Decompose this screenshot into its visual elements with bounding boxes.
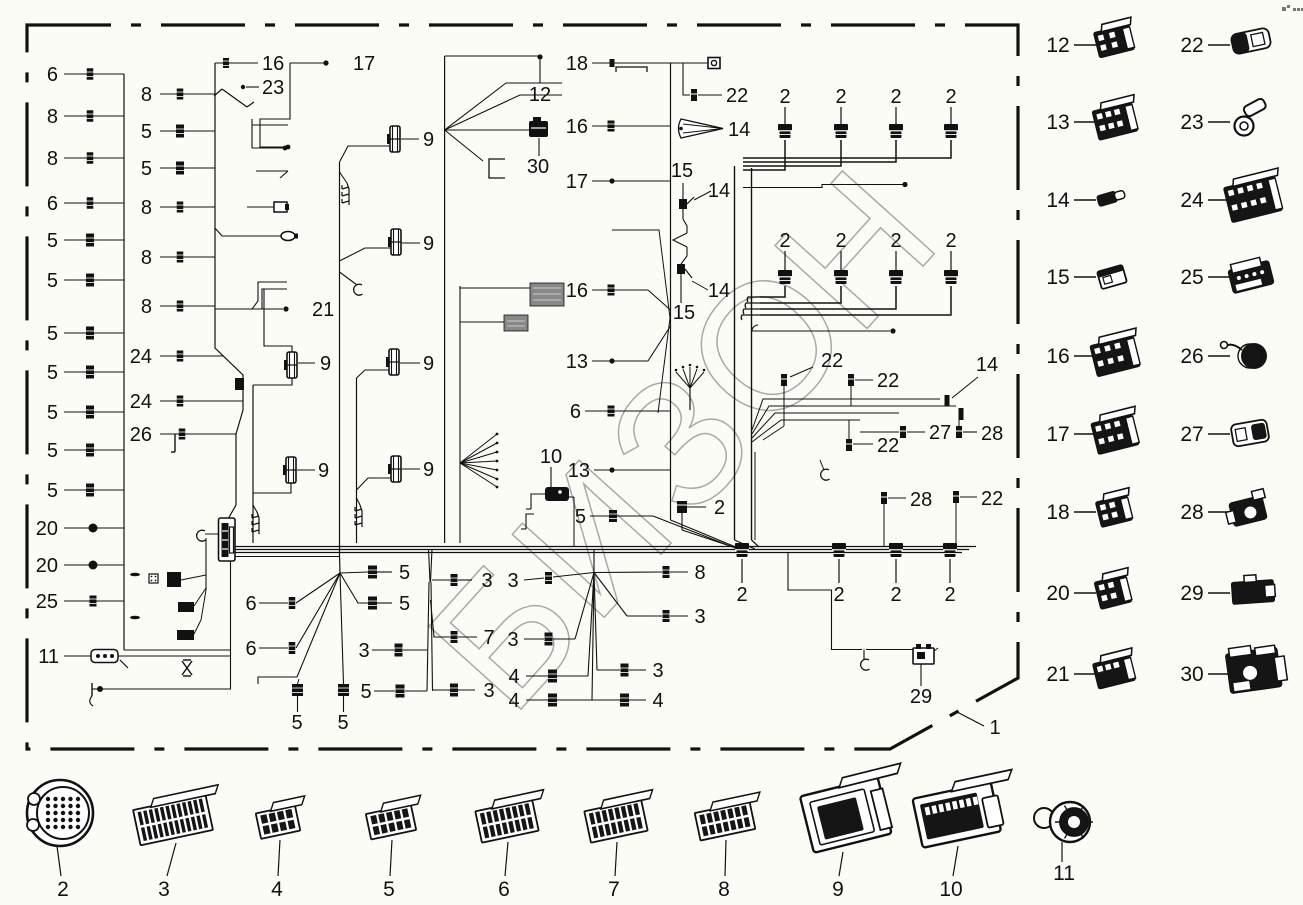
apex 1 fan [339, 556, 342, 573]
node 23 [241, 85, 245, 89]
bottom gallery item 8 [693, 792, 767, 840]
wire riser x460 [459, 286, 461, 543]
svg-text:2: 2 [890, 584, 901, 606]
plug 9 r2 [391, 229, 401, 255]
svg-text:27: 27 [929, 422, 951, 444]
plug 9 r4 [391, 456, 401, 482]
svg-text:14: 14 [728, 119, 750, 141]
svg-text:2: 2 [945, 86, 956, 108]
svg-text:15: 15 [671, 160, 693, 182]
node 15 lower group [677, 264, 685, 274]
svg-text:22: 22 [726, 85, 748, 107]
svg-text:2: 2 [779, 86, 790, 108]
gallery item 24 icon [1222, 168, 1288, 223]
braid line [612, 230, 670, 413]
svg-text:14: 14 [708, 280, 730, 302]
svg-text:29: 29 [1180, 582, 1203, 605]
svg-text:8: 8 [694, 562, 705, 584]
gallery item 25 icon [1227, 255, 1275, 293]
plug 9 left-b [286, 457, 296, 483]
gallery item 28 icon [1222, 489, 1270, 528]
svg-text:11: 11 [38, 646, 59, 668]
svg-text:5: 5 [47, 323, 58, 345]
svg-text:2: 2 [944, 584, 955, 606]
gallery item 13 icon [1091, 95, 1143, 141]
svg-text:16: 16 [1046, 345, 1069, 368]
svg-text:17: 17 [566, 171, 588, 193]
pin 22 d [953, 491, 959, 503]
svg-text:8: 8 [718, 878, 730, 901]
row 3-3 [432, 579, 450, 581]
svg-text:14: 14 [1046, 189, 1070, 212]
svg-text:3: 3 [507, 629, 518, 651]
svg-text:2: 2 [833, 584, 844, 606]
svg-text:13: 13 [566, 351, 588, 373]
svg-text:8: 8 [141, 296, 152, 318]
bottom gallery item 6 [474, 790, 552, 843]
svg-text:5: 5 [399, 562, 410, 584]
svg-text:5: 5 [47, 440, 58, 462]
svg-text:18: 18 [1046, 501, 1069, 524]
svg-text:1: 1 [989, 717, 1000, 739]
svg-text:16: 16 [566, 116, 588, 138]
svg-text:24: 24 [130, 391, 152, 413]
svg-text:29: 29 [910, 686, 932, 708]
svg-text:13: 13 [1046, 111, 1069, 134]
svg-text:21: 21 [1046, 663, 1069, 686]
svg-text:9: 9 [423, 353, 434, 375]
bottom gallery item 4 [254, 796, 311, 839]
svg-text:9: 9 [832, 878, 844, 901]
svg-text:26: 26 [130, 424, 152, 446]
gallery item 17 icon [1089, 406, 1144, 454]
gallery item 14 icon [1096, 188, 1126, 207]
svg-text:6: 6 [570, 401, 581, 423]
row 3 lower-right [594, 573, 597, 671]
svg-text:5: 5 [141, 158, 152, 180]
gallery item 21 icon [1091, 648, 1140, 689]
fan drop 5 d2 [340, 573, 344, 684]
svg-text:2: 2 [890, 230, 901, 252]
node 2 mid [677, 501, 687, 513]
gallery item 29 icon [1231, 574, 1276, 605]
trunk funnel [735, 540, 756, 549]
bottom gallery item 9 [798, 763, 917, 853]
svg-text:5: 5 [291, 712, 302, 734]
node 17 top-left [290, 62, 326, 64]
svg-text:4: 4 [271, 878, 283, 901]
row 3 mid-left [575, 573, 594, 640]
svg-text:10: 10 [939, 878, 962, 901]
page marks [1282, 7, 1286, 11]
wire spray tulip [689, 388, 691, 410]
svg-text:14: 14 [976, 354, 998, 376]
column 2 bus [215, 63, 243, 519]
hook r [340, 272, 358, 285]
svg-text:16: 16 [262, 53, 284, 75]
hook near connector [197, 530, 206, 541]
sub box left edge [230, 561, 232, 650]
row 3 right-mid [594, 573, 627, 617]
splice on bus [235, 378, 244, 390]
svg-text:21: 21 [312, 299, 334, 321]
pin 28 b [881, 492, 887, 504]
svg-text:25: 25 [1180, 266, 1203, 289]
row 7 [431, 600, 451, 637]
svg-text:3: 3 [694, 606, 705, 628]
svg-text:2: 2 [57, 878, 69, 901]
col2 branch e with bullet [215, 228, 222, 236]
pin 14 a [945, 395, 950, 406]
svg-text:28: 28 [981, 423, 1003, 445]
svg-text:4: 4 [508, 690, 519, 712]
wire fan right [460, 434, 497, 463]
hook cluster [821, 469, 830, 480]
svg-text:5: 5 [47, 362, 58, 384]
main trunk pair [734, 166, 736, 540]
horn 14 [679, 119, 724, 138]
svg-text:23: 23 [1180, 111, 1203, 134]
bottom gallery item 3 [132, 785, 227, 845]
svg-text:6: 6 [498, 878, 510, 901]
gallery item 26 icon [1221, 342, 1268, 370]
connector 29 [913, 648, 934, 664]
svg-text:22: 22 [821, 350, 843, 372]
pin 28 a [956, 426, 962, 438]
svg-text:22: 22 [981, 488, 1003, 510]
gallery item 12 icon [1092, 17, 1139, 58]
plug 9 r1 [390, 126, 400, 152]
gallery item 18 icon [1094, 488, 1137, 528]
node 21 [215, 308, 283, 310]
svg-text:9: 9 [423, 129, 434, 151]
col2 branch d with plug [247, 206, 274, 208]
apex 2 pair [429, 549, 431, 582]
svg-text:6: 6 [245, 593, 256, 615]
plug 2 row3 x=839 [832, 543, 846, 550]
svg-text:5: 5 [337, 712, 348, 734]
svg-text:9: 9 [318, 460, 329, 482]
wire with end dot y185 [743, 185, 905, 188]
svg-text:8: 8 [47, 148, 58, 170]
plug 2 row3 x=742 [735, 543, 749, 550]
trunk drop to funnel [754, 452, 756, 540]
node 22 top [683, 63, 690, 95]
pin 22 b [848, 374, 854, 386]
rect A right edge [339, 162, 341, 556]
item 1 leader [957, 712, 984, 726]
svg-text:8: 8 [141, 84, 152, 106]
left cascade vertical [252, 385, 254, 543]
svg-text:2: 2 [890, 86, 901, 108]
wire with end dot y331 [752, 325, 758, 331]
bottom gallery item 7 [583, 790, 661, 843]
gallery item 16 icon [1088, 328, 1145, 377]
svg-text:15: 15 [673, 302, 695, 324]
svg-text:2: 2 [835, 86, 846, 108]
svg-text:14: 14 [708, 180, 730, 202]
plug 2 row3 x=896 [889, 543, 903, 550]
svg-text:17: 17 [353, 53, 375, 75]
svg-text:5: 5 [141, 121, 152, 143]
svg-text:8: 8 [141, 247, 152, 269]
bottom gallery item 2 [27, 780, 93, 846]
svg-text:25: 25 [36, 591, 58, 613]
svg-text:6: 6 [245, 638, 256, 660]
rect B left edge [356, 378, 358, 543]
svg-text:24: 24 [1180, 189, 1204, 212]
comb r1 [340, 172, 348, 183]
bottom gallery item 11 [1034, 802, 1093, 842]
svg-text:3: 3 [358, 640, 369, 662]
svg-text:20: 20 [36, 518, 58, 540]
tick on 11 wire [120, 660, 128, 668]
col2 branch c [256, 170, 288, 172]
svg-text:3: 3 [652, 660, 663, 682]
svg-text:5: 5 [47, 230, 58, 252]
svg-text:13: 13 [568, 460, 590, 482]
svg-text:3: 3 [507, 570, 518, 592]
svg-text:22: 22 [1180, 34, 1203, 57]
bottom gallery item 5 [364, 795, 427, 839]
svg-text:8: 8 [47, 106, 58, 128]
central harness line [670, 63, 672, 520]
svg-text:20: 20 [1046, 582, 1069, 605]
connector 30 [529, 121, 548, 137]
gallery item 30 icon [1225, 641, 1289, 694]
svg-text:6: 6 [47, 64, 58, 86]
bus bottom jog [124, 649, 231, 651]
svg-text:20: 20 [36, 555, 58, 577]
svg-text:9: 9 [423, 459, 434, 481]
node 12 [445, 55, 540, 57]
svg-text:2: 2 [779, 230, 790, 252]
svg-text:28: 28 [1180, 501, 1203, 524]
svg-text:2: 2 [835, 230, 846, 252]
svg-text:2: 2 [714, 497, 725, 519]
svg-text:5: 5 [383, 878, 395, 901]
row 4 bottom [592, 573, 594, 701]
svg-text:22: 22 [877, 370, 899, 392]
svg-text:26: 26 [1180, 345, 1203, 368]
svg-text:15: 15 [1046, 266, 1069, 289]
svg-text:9: 9 [320, 353, 331, 375]
plug 9 r3 [389, 349, 399, 375]
svg-text:8: 8 [141, 197, 152, 219]
svg-text:3: 3 [158, 878, 170, 901]
svg-text:11: 11 [1053, 862, 1075, 885]
svg-text:5: 5 [360, 681, 371, 703]
svg-text:30: 30 [527, 156, 549, 178]
svg-text:12: 12 [1046, 34, 1069, 57]
splice squares group [205, 538, 207, 590]
cluster bundle rays [752, 399, 940, 430]
svg-text:7: 7 [608, 878, 620, 901]
pin 14 b [959, 408, 964, 420]
plug 9 left-a [287, 352, 297, 378]
shrink tube block a [460, 287, 530, 289]
svg-text:23: 23 [262, 77, 284, 99]
comb r2 [360, 505, 362, 527]
svg-text:5: 5 [399, 593, 410, 615]
svg-text:28: 28 [910, 489, 932, 511]
plug 2 row3 x=950 [943, 543, 957, 550]
main horizontal harness run [234, 546, 976, 548]
svg-text:4: 4 [508, 666, 519, 688]
loop ends [747, 297, 760, 302]
svg-text:22: 22 [877, 435, 899, 457]
fan at rect B edge [445, 129, 529, 131]
node 16 top [215, 62, 258, 64]
svg-text:4: 4 [652, 690, 663, 712]
svg-text:16: 16 [566, 280, 588, 302]
row 8 [594, 571, 662, 574]
gallery item 23 icon [1235, 98, 1268, 136]
svg-text:18: 18 [566, 53, 588, 75]
trunk connector block [219, 518, 236, 561]
comb on left cascade [253, 505, 257, 512]
svg-text:5: 5 [47, 270, 58, 292]
svg-text:3: 3 [481, 570, 492, 592]
pin 27 [900, 426, 906, 438]
svg-text:3: 3 [483, 680, 494, 702]
svg-text:5: 5 [47, 480, 58, 502]
gallery item 22 icon [1230, 27, 1271, 54]
svg-text:9: 9 [423, 233, 434, 255]
bottom gallery item 10 [911, 770, 1024, 848]
row 4 upper [588, 573, 594, 677]
svg-text:7: 7 [483, 627, 494, 649]
shrink tube block b [460, 321, 504, 323]
svg-text:27: 27 [1180, 423, 1203, 446]
pin 22 a [781, 374, 787, 386]
gallery item 27 icon [1230, 419, 1269, 447]
fan drop 5 c [258, 573, 340, 684]
svg-text:6: 6 [47, 193, 58, 215]
svg-text:5: 5 [575, 506, 586, 528]
svg-text:17: 17 [1046, 423, 1069, 446]
svg-text:30: 30 [1180, 663, 1203, 686]
svg-text:10: 10 [540, 446, 562, 468]
pin 22 c [846, 439, 852, 451]
svg-text:24: 24 [130, 346, 152, 368]
svg-text:2: 2 [736, 584, 747, 606]
apex 3 [593, 549, 595, 573]
wire to 29 [788, 552, 862, 650]
clip symbol X [182, 661, 192, 675]
gallery item 20 icon [1093, 568, 1137, 610]
row 3 e [433, 689, 450, 691]
gallery item 15 icon [1097, 265, 1127, 289]
rect B right edge [444, 56, 446, 543]
col2 branch b [252, 147, 283, 149]
kink [673, 233, 687, 247]
col2 branch a [252, 124, 288, 126]
svg-text:5: 5 [47, 402, 58, 424]
svg-text:2: 2 [945, 230, 956, 252]
column 1 bus [123, 74, 125, 650]
bottom-left pigtail terminal [97, 686, 103, 692]
harness boundary border [27, 25, 1018, 749]
ring terminal top [671, 62, 709, 64]
